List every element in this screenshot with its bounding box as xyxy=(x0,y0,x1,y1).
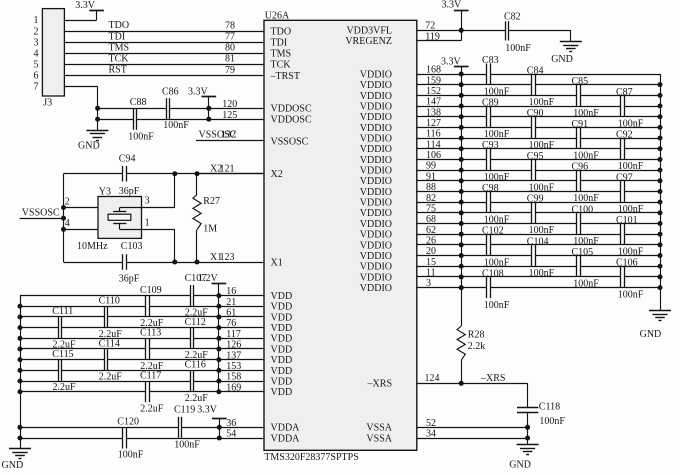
wire VREGENZ pin119 xyxy=(417,40,461,42)
svg-text:VDDIO: VDDIO xyxy=(360,240,392,251)
wire J3 pin1 to 3.3V xyxy=(64,20,96,22)
resistor R27 xyxy=(196,174,198,195)
svg-text:100nF: 100nF xyxy=(529,140,555,151)
svg-text:GND: GND xyxy=(78,141,100,152)
svg-text:VSSA: VSSA xyxy=(366,433,392,444)
svg-text:159: 159 xyxy=(426,75,441,86)
svg-text:C87: C87 xyxy=(616,87,633,98)
power 1.2V xyxy=(212,283,227,285)
wire -XRS pin124 xyxy=(417,383,528,385)
svg-text:VDD: VDD xyxy=(271,387,293,398)
svg-text:VDD: VDD xyxy=(271,344,293,355)
svg-text:5: 5 xyxy=(34,60,39,71)
wire VDDIO pin152 xyxy=(417,95,577,97)
svg-text:61: 61 xyxy=(226,308,236,319)
svg-text:VDD: VDD xyxy=(271,355,293,366)
power 3.3V (VDDIO bus) xyxy=(454,66,469,68)
capacitor C93 xyxy=(486,149,488,170)
capacitor C105 xyxy=(576,256,578,277)
svg-text:100nF: 100nF xyxy=(539,416,565,427)
svg-text:C89: C89 xyxy=(482,98,499,109)
svg-text:C112: C112 xyxy=(185,317,206,328)
svg-text:VDDIO: VDDIO xyxy=(360,133,392,144)
svg-text:100nF: 100nF xyxy=(163,120,189,131)
svg-text:C90: C90 xyxy=(527,108,544,119)
wire X2 net xyxy=(64,173,123,175)
svg-text:VDD: VDD xyxy=(271,366,293,377)
ground GND (under J3) xyxy=(86,130,108,132)
svg-text:TMS: TMS xyxy=(109,42,130,53)
svg-text:VDDIO: VDDIO xyxy=(360,198,392,209)
wire crystal pin1 to X1 xyxy=(142,229,175,231)
svg-text:79: 79 xyxy=(225,65,235,76)
svg-text:VDDIO: VDDIO xyxy=(360,230,392,241)
svg-text:C108: C108 xyxy=(482,268,504,279)
capacitor C82 xyxy=(505,21,507,40)
svg-text:U26A: U26A xyxy=(265,11,290,22)
svg-text:C120: C120 xyxy=(117,417,139,428)
svg-text:137: 137 xyxy=(226,350,241,361)
svg-text:52: 52 xyxy=(426,418,436,429)
svg-text:147: 147 xyxy=(426,97,441,108)
svg-text:Y3: Y3 xyxy=(99,186,111,197)
svg-text:99: 99 xyxy=(426,161,436,172)
resistor R28 xyxy=(461,288,463,326)
wire TDI (J3 pin3 to U26A pin 77) xyxy=(64,42,264,44)
svg-text:123: 123 xyxy=(220,252,235,263)
svg-text:54: 54 xyxy=(226,429,236,440)
svg-text:VDDIO: VDDIO xyxy=(360,112,392,123)
svg-text:–TRST: –TRST xyxy=(270,71,300,82)
capacitor C110 xyxy=(104,306,106,327)
svg-text:116: 116 xyxy=(426,129,441,140)
svg-text:126: 126 xyxy=(226,340,241,351)
wire left vertical (VSSOSC to crystal) xyxy=(63,174,65,262)
wire VDDIO pin168 xyxy=(417,74,487,76)
wire X2 to U26A xyxy=(197,173,264,175)
svg-text:J3: J3 xyxy=(43,98,52,109)
svg-text:2.2uF: 2.2uF xyxy=(140,404,164,415)
svg-text:3.3V: 3.3V xyxy=(442,0,463,11)
svg-text:153: 153 xyxy=(226,361,241,372)
svg-text:C98: C98 xyxy=(482,183,499,194)
svg-text:1M: 1M xyxy=(203,223,217,234)
svg-text:C82: C82 xyxy=(504,12,521,23)
capacitor C97 xyxy=(620,181,622,202)
svg-text:GND: GND xyxy=(2,460,24,471)
svg-text:26: 26 xyxy=(426,235,436,246)
svg-text:R28: R28 xyxy=(468,329,485,340)
junction xyxy=(172,260,177,265)
svg-text:6: 6 xyxy=(34,71,39,82)
svg-text:VDDIO: VDDIO xyxy=(360,155,392,166)
svg-text:100nF: 100nF xyxy=(484,172,510,183)
svg-text:20: 20 xyxy=(426,246,436,257)
wire VDDIO pin20 xyxy=(417,255,532,257)
capacitor C102 xyxy=(486,234,488,255)
svg-text:VDDIO: VDDIO xyxy=(360,101,392,112)
wire VDDIO pin88 xyxy=(417,191,621,193)
wire VDDIO pin3 xyxy=(417,287,487,289)
svg-text:3.3V: 3.3V xyxy=(188,86,209,97)
wire VDDIO pin106 xyxy=(417,159,487,161)
wire VDDIO pin15 xyxy=(417,266,577,268)
capacitor C116 xyxy=(190,371,192,392)
svg-text:C114: C114 xyxy=(99,338,120,349)
capacitor C99 xyxy=(531,202,533,223)
capacitor C106 xyxy=(620,266,622,287)
svg-text:100nF: 100nF xyxy=(573,236,599,247)
wire TCK (J3 pin5 to U26A pin 81) xyxy=(64,64,264,66)
capacitor C103 xyxy=(122,254,124,270)
svg-text:100nF: 100nF xyxy=(505,43,531,54)
svg-text:91: 91 xyxy=(426,171,436,182)
wire VDD pin16 xyxy=(20,295,190,297)
svg-text:VDDIO: VDDIO xyxy=(360,91,392,102)
IC U26A TMS320F28377SPTPS xyxy=(264,20,417,450)
crystal Y3 xyxy=(98,197,142,239)
svg-text:C111: C111 xyxy=(52,306,73,317)
svg-text:36pF: 36pF xyxy=(119,186,140,197)
svg-text:VDDIO: VDDIO xyxy=(360,176,392,187)
capacitor C118 xyxy=(527,383,529,407)
svg-text:3: 3 xyxy=(145,195,150,206)
U26A left pin labels xyxy=(270,27,312,445)
svg-text:TMS: TMS xyxy=(271,49,292,60)
U26A right pin labels xyxy=(345,26,392,445)
right GND bus xyxy=(660,74,662,311)
svg-text:C100: C100 xyxy=(572,204,594,215)
svg-text:1.2V: 1.2V xyxy=(198,273,219,284)
capacitor C104 xyxy=(531,245,533,266)
svg-text:106: 106 xyxy=(426,150,441,161)
svg-text:4: 4 xyxy=(65,218,70,229)
wire VDD pin126 xyxy=(20,348,146,350)
capacitor C109 xyxy=(145,296,147,317)
ground GND (top right) xyxy=(560,41,582,43)
svg-text:78: 78 xyxy=(225,21,235,32)
wire J3 pin7 to GND rail xyxy=(64,86,97,88)
svg-text:119: 119 xyxy=(425,31,440,42)
svg-text:36pF: 36pF xyxy=(119,273,140,284)
svg-text:VDDIO: VDDIO xyxy=(360,251,392,262)
svg-text:TDI: TDI xyxy=(109,31,126,42)
svg-text:120: 120 xyxy=(222,99,237,110)
svg-text:11: 11 xyxy=(426,268,436,279)
svg-text:VDDIO: VDDIO xyxy=(360,187,392,198)
junction xyxy=(217,425,222,430)
wire TDO (J3 pin2 to U26A pin 78) xyxy=(64,31,264,33)
svg-text:X1: X1 xyxy=(271,257,283,268)
svg-text:RST: RST xyxy=(109,65,127,76)
svg-text:VDD: VDD xyxy=(271,291,293,302)
capacitor C86 xyxy=(166,98,168,119)
junction xyxy=(459,285,464,290)
svg-text:169: 169 xyxy=(226,382,241,393)
net label VSSOSC (crystal) xyxy=(20,218,64,220)
svg-text:127: 127 xyxy=(426,118,441,129)
svg-text:C119: C119 xyxy=(174,404,195,415)
svg-text:VDD: VDD xyxy=(271,312,293,323)
svg-text:1: 1 xyxy=(145,218,150,229)
junction xyxy=(459,28,464,33)
svg-text:C116: C116 xyxy=(185,360,206,371)
svg-text:100nF: 100nF xyxy=(529,268,555,279)
svg-text:VDDIO: VDDIO xyxy=(360,208,392,219)
svg-text:82: 82 xyxy=(426,193,436,204)
svg-text:VREGENZ: VREGENZ xyxy=(345,36,392,47)
svg-text:2.2uF: 2.2uF xyxy=(185,393,209,404)
capacitor C119 xyxy=(178,417,180,438)
capacitor C94 xyxy=(122,166,124,182)
svg-text:168: 168 xyxy=(426,65,441,76)
svg-text:100nF: 100nF xyxy=(618,289,644,300)
capacitor C90 xyxy=(531,117,533,138)
svg-text:88: 88 xyxy=(426,182,436,193)
wire VDD pin117 xyxy=(20,338,190,340)
capacitor C120 xyxy=(122,428,124,449)
svg-text:132: 132 xyxy=(221,129,236,140)
svg-text:1: 1 xyxy=(34,15,39,26)
svg-text:VDDIO: VDDIO xyxy=(360,80,392,91)
capacitor C98 xyxy=(486,192,488,213)
svg-text:100nF: 100nF xyxy=(573,108,599,119)
svg-text:3: 3 xyxy=(426,278,431,289)
ground GND (right) xyxy=(649,310,671,312)
svg-text:C85: C85 xyxy=(572,76,589,87)
svg-text:C102: C102 xyxy=(482,226,504,237)
svg-text:76: 76 xyxy=(226,318,236,329)
crystal pin wires left xyxy=(64,207,99,209)
svg-text:VDDIO: VDDIO xyxy=(360,283,392,294)
capacitor C84 xyxy=(531,74,533,95)
wire VDDIO pin127 xyxy=(417,127,532,129)
wire VDD pin76 xyxy=(20,327,58,329)
capacitor C83 xyxy=(486,64,488,85)
svg-text:10MHz: 10MHz xyxy=(77,241,108,252)
svg-text:GND: GND xyxy=(551,54,573,65)
capacitor C115 xyxy=(58,360,60,381)
ground GND (bottom left) xyxy=(9,448,31,450)
capacitor C88 xyxy=(133,109,135,130)
svg-text:TDO: TDO xyxy=(109,20,130,31)
svg-text:TDI: TDI xyxy=(271,38,288,49)
svg-text:C96: C96 xyxy=(572,162,589,173)
junction xyxy=(61,205,66,210)
svg-text:152: 152 xyxy=(426,86,441,97)
left GND bus xyxy=(20,296,22,449)
power 3.3V (VDDA) xyxy=(212,418,227,420)
power 3.3V (VDD3VFL) xyxy=(454,10,469,12)
J3 pin numbers 1-7 xyxy=(34,15,39,92)
svg-text:C103: C103 xyxy=(121,241,143,252)
svg-text:VDDOSC: VDDOSC xyxy=(271,104,312,115)
svg-text:TCK: TCK xyxy=(109,53,130,64)
wire VDDA pin36 xyxy=(20,427,178,429)
wire VDDIO pin91 xyxy=(417,180,577,182)
connector J3 xyxy=(42,9,64,96)
svg-text:100nF: 100nF xyxy=(128,131,154,142)
capacitor C100 xyxy=(576,213,578,234)
svg-text:C118: C118 xyxy=(539,401,560,412)
svg-text:VSSOSC: VSSOSC xyxy=(271,136,309,147)
svg-text:C101: C101 xyxy=(616,215,638,226)
svg-text:C95: C95 xyxy=(527,151,544,162)
wire VDDIO pin68 xyxy=(417,223,577,225)
svg-text:VDDOSC: VDDOSC xyxy=(271,115,312,126)
wire TMS (J3 pin4 to U26A pin 80) xyxy=(64,53,264,55)
svg-text:34: 34 xyxy=(426,429,436,440)
svg-text:117: 117 xyxy=(226,329,241,340)
svg-text:GND: GND xyxy=(640,329,662,340)
svg-text:3: 3 xyxy=(34,37,39,48)
svg-text:C115: C115 xyxy=(52,349,73,360)
wire VDD pin158 xyxy=(20,381,190,383)
svg-text:X2: X2 xyxy=(271,169,283,180)
capacitor C108 xyxy=(486,277,488,298)
svg-text:158: 158 xyxy=(226,372,241,383)
junction xyxy=(172,171,177,176)
svg-text:–XRS: –XRS xyxy=(480,373,505,384)
svg-text:VSSOSC: VSSOSC xyxy=(22,207,60,218)
crystal symbol xyxy=(108,208,141,230)
junction xyxy=(525,425,530,430)
svg-text:C92: C92 xyxy=(616,130,633,141)
wire VDDIO pin116 xyxy=(417,138,577,140)
capacitor C95 xyxy=(531,160,533,181)
junction xyxy=(195,171,200,176)
svg-text:VDDIO: VDDIO xyxy=(360,272,392,283)
wire VDDIO pin75 xyxy=(417,212,532,214)
svg-text:2: 2 xyxy=(34,26,39,37)
wire VSSOSC pin132 xyxy=(196,140,264,142)
svg-text:VDDA: VDDA xyxy=(271,423,301,434)
wire VDDIO pin26 xyxy=(417,244,487,246)
capacitor C92 xyxy=(620,138,622,159)
svg-text:100nF: 100nF xyxy=(118,449,144,460)
svg-text:68: 68 xyxy=(426,214,436,225)
svg-text:VDD: VDD xyxy=(271,334,293,345)
wire VDD pin169 xyxy=(20,391,146,393)
wire VDDIO pin147 xyxy=(417,106,621,108)
capacitor C89 xyxy=(486,106,488,127)
junctions on right GND bus xyxy=(658,82,663,290)
svg-text:C83: C83 xyxy=(482,55,499,66)
svg-text:80: 80 xyxy=(225,43,235,54)
wire VSSA pin34 xyxy=(417,438,528,440)
wire VDDIO pin82 xyxy=(417,202,487,204)
junctions on left GND bus xyxy=(18,304,23,441)
junctions on VDDIO 3.3V bus xyxy=(459,72,464,291)
capacitor C96 xyxy=(576,170,578,191)
wire VDDIO pin11 xyxy=(417,276,621,278)
svg-text:72: 72 xyxy=(425,21,435,32)
svg-text:3.3V: 3.3V xyxy=(197,404,218,415)
svg-text:VDD: VDD xyxy=(271,302,293,313)
junction xyxy=(95,106,100,111)
svg-text:VDDIO: VDDIO xyxy=(360,69,392,80)
wire VDDIO pin62 xyxy=(417,234,621,236)
svg-text:77: 77 xyxy=(225,32,235,43)
svg-text:C93: C93 xyxy=(482,140,499,151)
capacitor C111 xyxy=(58,317,60,338)
svg-text:C104: C104 xyxy=(527,236,549,247)
svg-text:4: 4 xyxy=(34,48,39,59)
wire X1 net xyxy=(64,262,123,264)
svg-text:–XRS: –XRS xyxy=(367,379,392,390)
svg-text:VDDIO: VDDIO xyxy=(360,219,392,230)
wire VDD pin137 xyxy=(20,359,104,361)
svg-text:15: 15 xyxy=(426,257,436,268)
svg-text:C94: C94 xyxy=(119,153,136,164)
wire crystal pin3 to X2 xyxy=(142,207,175,209)
power 3.3V (J3) xyxy=(89,10,104,12)
svg-text:100nF: 100nF xyxy=(484,300,510,311)
svg-text:TCK: TCK xyxy=(271,60,292,71)
svg-text:C88: C88 xyxy=(130,97,147,108)
3.3V VDDIO bus vertical xyxy=(461,74,463,288)
capacitor C87 xyxy=(620,96,622,117)
svg-text:125: 125 xyxy=(222,110,237,121)
wire C82 to GND xyxy=(570,30,572,41)
capacitor C113 xyxy=(145,339,147,360)
svg-text:C110: C110 xyxy=(99,296,120,307)
svg-text:100nF: 100nF xyxy=(618,204,644,215)
svg-text:81: 81 xyxy=(225,54,235,65)
svg-text:2.2uF: 2.2uF xyxy=(99,371,123,382)
svg-text:C105: C105 xyxy=(572,247,594,258)
svg-text:16: 16 xyxy=(226,286,236,297)
svg-text:138: 138 xyxy=(426,107,441,118)
wire VDDA pin54 xyxy=(20,438,123,440)
svg-text:VDDIO: VDDIO xyxy=(360,144,392,155)
svg-text:36: 36 xyxy=(226,418,236,429)
capacitor C112 xyxy=(190,328,192,349)
svg-text:VDD: VDD xyxy=(271,376,293,387)
svg-text:121: 121 xyxy=(220,164,235,175)
junction xyxy=(206,106,211,111)
svg-text:C99: C99 xyxy=(527,194,544,205)
capacitor C107 xyxy=(190,285,192,306)
capacitor C117 xyxy=(145,381,147,402)
wire VDDIO pin138 xyxy=(417,116,487,118)
svg-text:C113: C113 xyxy=(140,328,161,339)
svg-text:VDDIO: VDDIO xyxy=(360,123,392,134)
svg-text:R27: R27 xyxy=(203,196,220,207)
svg-text:VDDIO: VDDIO xyxy=(360,262,392,273)
svg-text:VDDA: VDDA xyxy=(271,433,301,444)
wire RST (J3 pin6 to U26A pin 79) xyxy=(64,75,264,77)
svg-text:3.3V: 3.3V xyxy=(441,57,462,68)
wire VDDIO pin99 xyxy=(417,170,532,172)
capacitor C114 xyxy=(104,349,106,370)
svg-text:C86: C86 xyxy=(162,86,179,97)
wire VDD pin21 xyxy=(20,306,146,308)
ground GND (bottom center) xyxy=(517,444,539,446)
wire VDDIO pin159 xyxy=(417,84,532,86)
svg-text:C109: C109 xyxy=(140,285,162,296)
svg-text:114: 114 xyxy=(426,139,441,150)
svg-text:GND: GND xyxy=(509,460,531,471)
svg-text:62: 62 xyxy=(426,225,436,236)
svg-text:TDO: TDO xyxy=(271,27,292,38)
svg-text:C106: C106 xyxy=(616,258,638,269)
wire VDDOSC pin125 xyxy=(98,119,134,121)
power 3.3V (VDDOSC) xyxy=(202,96,217,98)
capacitor C91 xyxy=(576,128,578,149)
wire VDD pin153 xyxy=(20,370,58,372)
wire VDD pin61 xyxy=(20,316,104,318)
